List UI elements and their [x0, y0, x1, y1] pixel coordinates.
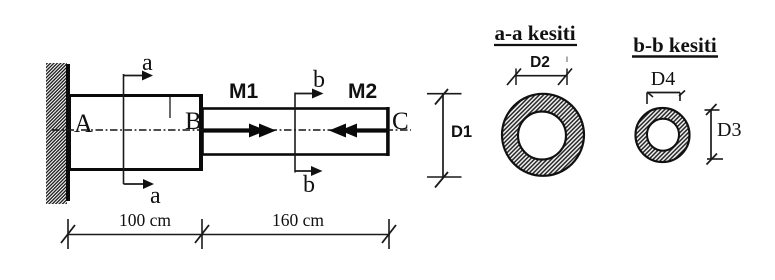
- svg-text:D3: D3: [717, 119, 741, 141]
- dimension D3 line: [710, 110, 712, 159]
- dimension tick at wall: [67, 219, 69, 249]
- shaft B face line: [199, 94, 203, 171]
- torque arrow M2: [352, 128, 387, 132]
- section a bottom arrow: [124, 183, 146, 185]
- section a top arrow: [124, 75, 145, 77]
- svg-text:b-b kesiti: b-b kesiti: [633, 33, 717, 57]
- svg-text:D2: D2: [530, 54, 550, 71]
- svg-text:160 cm: 160 cm: [272, 210, 324, 230]
- svg-text:b: b: [303, 172, 315, 198]
- dimension D4 line: [647, 92, 680, 94]
- svg-text:M1: M1: [229, 80, 258, 103]
- dimension line: [68, 234, 390, 236]
- svg-text:A: A: [74, 109, 93, 138]
- svg-text:b: b: [313, 67, 325, 93]
- svg-text:M2: M2: [348, 80, 377, 103]
- dimension tick at C: [388, 219, 390, 249]
- svg-text:B: B: [185, 108, 202, 135]
- stray leader line on shaft AB: [169, 97, 171, 118]
- section b-b ring inner: [647, 119, 679, 151]
- section line a-a: [123, 74, 125, 184]
- section line b-b: [294, 93, 296, 173]
- svg-text:C: C: [392, 108, 409, 135]
- svg-text:D1: D1: [451, 123, 472, 141]
- dimension D2 line: [516, 75, 567, 77]
- section a-a ring inner: [518, 112, 566, 160]
- centerline dash-dot: [52, 129, 411, 131]
- shaft BC outline: [203, 109, 388, 155]
- shaft C face line: [386, 107, 389, 156]
- section b-b ring outer: [636, 108, 690, 162]
- svg-text:a: a: [150, 183, 161, 209]
- section b top arrow: [295, 93, 314, 95]
- svg-text:100 cm: 100 cm: [119, 210, 171, 230]
- dimension D1 line: [442, 94, 444, 177]
- section b bottom arrow: [295, 170, 313, 172]
- dimension tick at B: [201, 219, 203, 249]
- wall face line: [66, 64, 70, 201]
- fixed support wall hatching: [46, 63, 67, 204]
- svg-text:a-a kesiti: a-a kesiti: [494, 21, 575, 45]
- torque arrow M1: [203, 128, 256, 132]
- shaft AB outline: [70, 96, 201, 170]
- svg-text:D4: D4: [651, 68, 675, 90]
- section a-a ring outer: [502, 94, 584, 176]
- svg-text:a: a: [142, 50, 153, 76]
